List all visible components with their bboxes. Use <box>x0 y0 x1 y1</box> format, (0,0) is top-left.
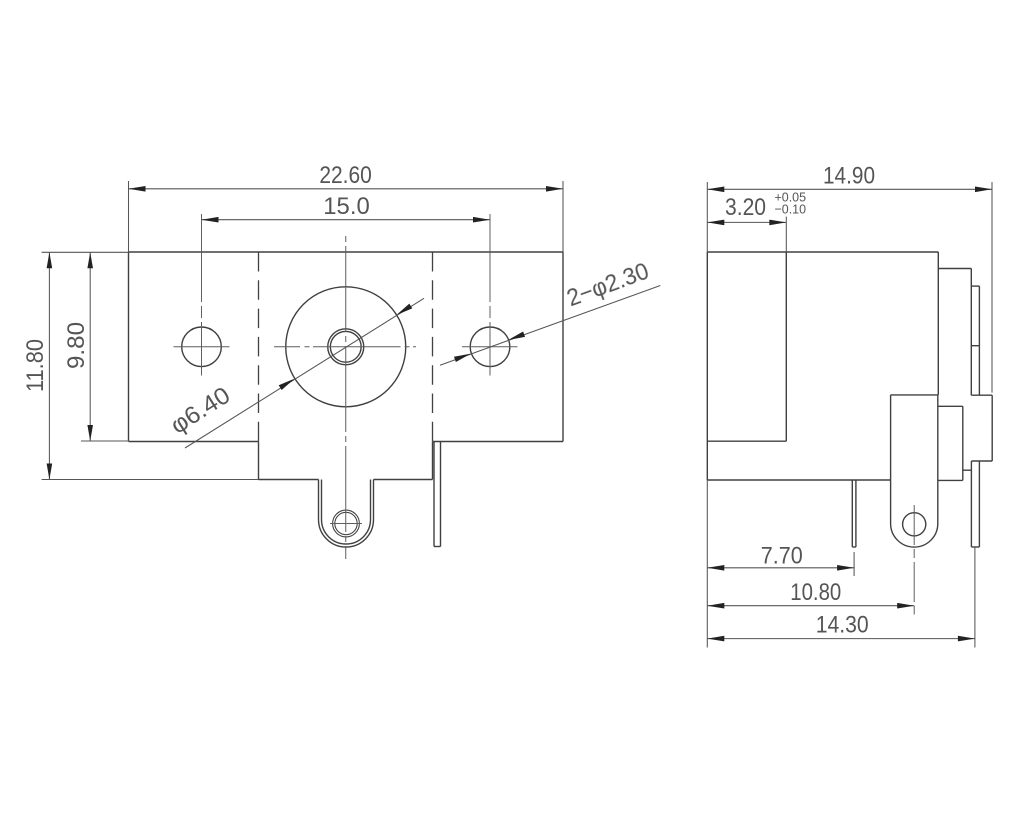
side view lug bottom arc <box>891 524 938 548</box>
svg-text:14.90: 14.90 <box>823 163 875 190</box>
dim 11.80 bottom extension <box>42 479 259 481</box>
svg-text:14.30: 14.30 <box>816 612 869 639</box>
arrow 3.20 left <box>707 220 724 226</box>
dia 6.40 leader line <box>185 298 424 448</box>
side view middle pin left edge <box>851 480 853 547</box>
front view center boss right edge <box>432 442 434 480</box>
side view body bottom edge right segment <box>938 479 963 481</box>
dimension and extension lines <box>42 181 992 648</box>
side view middle pin bottom cap <box>852 546 856 548</box>
front view mounting tab outer outline <box>319 480 374 548</box>
dim 3.20 line <box>707 221 786 223</box>
front view hidden edge right <box>432 252 434 442</box>
side view barrel face vertical <box>970 269 972 396</box>
side view thin bar mid step <box>971 345 979 347</box>
svg-text:10.80: 10.80 <box>790 579 841 606</box>
side view lug right edge <box>937 395 939 524</box>
side view body left edge <box>706 252 708 480</box>
arrow 14.30 left <box>707 636 724 642</box>
svg-text:9.80: 9.80 <box>63 322 90 369</box>
arrow dia2.30 left <box>454 351 472 362</box>
arrow 15.0 right <box>473 217 490 223</box>
front view center boss bottom left segment <box>259 479 319 481</box>
front view right hole horizontal centerline <box>462 346 518 348</box>
front view hidden edge left <box>258 252 260 442</box>
front view right mounting hole <box>470 327 510 367</box>
dim 22.60 right extension <box>562 181 564 252</box>
dim 14.30 line <box>707 638 975 640</box>
side view front pin left edge <box>970 461 972 547</box>
dim 7.70 line <box>707 567 854 569</box>
front view barrel inner circle <box>330 331 361 362</box>
arrow 9.80 top <box>87 252 93 268</box>
front view barrel horizontal centerline <box>274 346 416 348</box>
arrow 14.30 right <box>958 636 975 642</box>
svg-text:3.20: 3.20 <box>725 194 766 221</box>
front view tab hole outer circle <box>333 510 360 537</box>
arrow dia6.40 upper <box>395 304 412 318</box>
side view right bar bottom <box>971 460 992 462</box>
side view thin bar right edge <box>978 286 980 395</box>
arrow dia2.30 right <box>507 332 525 343</box>
arrow 14.90 left <box>707 187 724 193</box>
front view barrel middle circle <box>328 329 364 365</box>
svg-text:22.60: 22.60 <box>319 162 372 189</box>
dim 22.60 left extension <box>128 181 130 252</box>
side view body bottom edge <box>707 479 890 481</box>
dim 11.80 top extension <box>42 251 129 253</box>
front view center boss bottom right segment <box>374 479 433 481</box>
side view body right edge <box>937 252 939 395</box>
side view body top edge <box>707 251 938 253</box>
arrow 14.90 right <box>975 187 992 193</box>
dim 14.30 right extension <box>974 547 976 648</box>
arrow 7.70 left <box>707 565 724 571</box>
side view inner vertical edge <box>785 252 787 441</box>
side view barrel step top <box>938 268 971 270</box>
front view left hole vertical centerline <box>201 214 203 376</box>
front view right hole vertical centerline <box>489 214 491 376</box>
front view left mounting hole <box>182 327 222 367</box>
dim 15.0 line <box>202 219 491 221</box>
front view body top edge <box>129 251 564 253</box>
arrow 9.80 bottom <box>87 425 93 441</box>
side view left extension <box>706 480 708 648</box>
svg-text:11.80: 11.80 <box>22 339 49 392</box>
side view lug left edge <box>890 395 892 524</box>
side view front pin right edge <box>978 461 980 547</box>
front view mounting tab inner outline <box>322 480 371 545</box>
arrow 22.60 right <box>546 186 563 192</box>
side view support block bottom <box>963 469 972 471</box>
front view tab hole inner circle <box>335 512 357 534</box>
side view thin bar top <box>971 285 979 287</box>
center lines <box>174 214 915 615</box>
side view front pin bottom cap <box>971 546 979 548</box>
svg-text:7.70: 7.70 <box>761 543 803 570</box>
dia 2.30 leader line <box>440 286 660 366</box>
front view vertical centerline <box>345 236 347 559</box>
side view inner horizontal edge <box>707 440 786 442</box>
side view right bar right edge <box>991 395 993 461</box>
arrow 11.80 top <box>47 252 53 268</box>
arrow 10.80 right <box>897 603 914 609</box>
arrow dia6.40 lower <box>279 376 296 390</box>
dim 11.80 line <box>48 252 50 479</box>
side view support block top <box>938 405 963 407</box>
dimension texts <box>22 162 875 639</box>
side view lug top edge <box>891 394 939 396</box>
side view support block right edge <box>962 406 964 480</box>
front view right pin bottom cap <box>434 546 441 548</box>
arrowheads <box>47 186 992 641</box>
front view body left edge <box>128 252 130 442</box>
side view middle pin right edge <box>855 480 857 547</box>
dim 14.90 left extension <box>706 182 708 252</box>
side view lug centerline <box>913 505 915 615</box>
front view barrel outer circle <box>286 287 406 407</box>
dim 9.80 bottom extension <box>81 440 129 442</box>
front view body bottom edge left segment <box>129 441 259 443</box>
svg-text:15.0: 15.0 <box>323 193 370 220</box>
front view body bottom edge right segment <box>433 441 564 443</box>
dim 10.80 line <box>707 605 914 607</box>
front view right pin left edge <box>433 442 435 547</box>
front view right pin right edge <box>440 442 442 547</box>
arrow 3.20 right <box>769 220 786 226</box>
arrow 15.0 left <box>202 217 219 223</box>
dim 9.80 line <box>89 252 91 441</box>
hidden dashed lines <box>259 252 433 442</box>
tab hole thin circles <box>333 510 360 537</box>
arrow 10.80 left <box>707 603 724 609</box>
front view body right edge <box>562 252 564 442</box>
dim 14.90 line <box>707 188 992 190</box>
svg-text:−0.10: −0.10 <box>775 201 807 216</box>
front view tab hole horizontal centerline <box>330 523 362 525</box>
arrow 11.80 bottom <box>47 464 53 480</box>
dim 3.20 right extension <box>785 217 787 252</box>
svg-text:φ6.40: φ6.40 <box>166 382 235 440</box>
side view right bar top <box>971 394 992 396</box>
side view lug hole <box>903 513 926 536</box>
dim 22.60 line <box>129 188 564 190</box>
front view left hole horizontal centerline <box>174 346 230 348</box>
thick object lines <box>129 252 993 547</box>
arrow 22.60 left <box>129 186 146 192</box>
dim 14.90 right extension <box>991 182 993 393</box>
arrow 7.70 right <box>837 565 854 571</box>
dim 7.70 right extension <box>853 552 855 576</box>
front view center boss left edge <box>258 442 260 480</box>
